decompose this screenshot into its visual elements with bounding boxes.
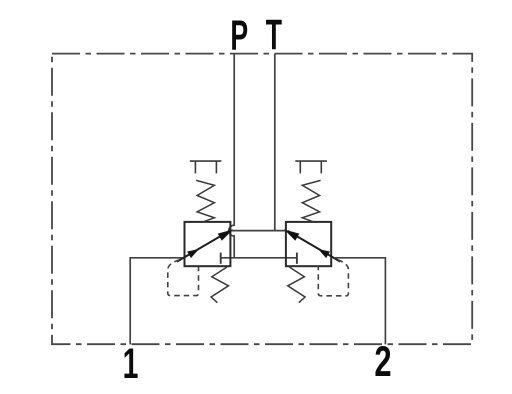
enclosure border (dash-dot subplate boundary) [52, 54, 472, 345]
valve V2 spring seat (top anchor) [295, 161, 327, 173]
valve V2 body (right relief valve square) [286, 222, 331, 266]
plug tick left end [220, 253, 222, 264]
valve V1 flow arrow (diagonal, points to upper right) [177, 230, 232, 261]
valve V2 lower spring (below body) [288, 267, 305, 303]
wire P header with plugged ends inside valves [221, 257, 297, 259]
valve V1 body (left relief valve square) [185, 222, 231, 266]
wire bridge between valve V1 and valve V2 [230, 230, 286, 232]
valve V1 spring (upper zigzag) [196, 180, 214, 221]
plug tick right end [296, 253, 298, 264]
valve V1 lower spring (below body) [211, 267, 228, 303]
valve V2 pilot line (dashed loop to bottom port) [318, 260, 348, 296]
svg-text:T: T [266, 11, 282, 59]
valve V1 spring seat (top anchor) [190, 161, 222, 173]
wire port 1 branch (horizontal + vertical to bottom border) [130, 258, 183, 345]
valve V2 spring (upper zigzag) [302, 180, 320, 221]
wire port 2 branch (horizontal + vertical to bottom border) [334, 258, 385, 345]
wire T line (vertical from top border down to bridge wire) [274, 54, 276, 231]
svg-text:P: P [230, 12, 248, 60]
wire P line (vertical from top border, hops over bridge wire) [229, 54, 234, 258]
svg-text:1: 1 [123, 339, 139, 387]
valve V1 pilot line (dashed loop to bottom port) [168, 260, 199, 296]
valve V2 flow arrow (diagonal, points to upper left) [285, 230, 340, 261]
svg-text:2: 2 [374, 337, 391, 385]
